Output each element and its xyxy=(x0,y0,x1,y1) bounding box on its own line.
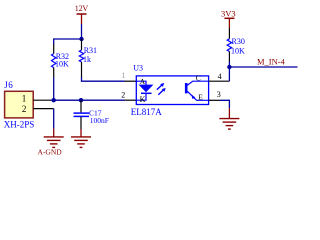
svg-text:10K: 10K xyxy=(55,60,69,69)
power 3V3 xyxy=(221,9,236,29)
svg-text:10K: 10K xyxy=(231,47,245,56)
svg-text:3V3: 3V3 xyxy=(221,9,236,19)
connector J6 xyxy=(4,80,35,130)
svg-text:3: 3 xyxy=(217,90,221,99)
power +12V xyxy=(75,4,89,24)
pin 3 of U3 xyxy=(209,99,220,101)
svg-text:1k: 1k xyxy=(83,55,91,64)
svg-text:1: 1 xyxy=(22,93,27,103)
svg-text:J6: J6 xyxy=(4,80,13,90)
svg-text:2: 2 xyxy=(121,90,125,99)
pin 2 of J6 xyxy=(33,108,54,110)
svg-text:100nF: 100nF xyxy=(90,116,109,125)
wire J6 pin2 down xyxy=(53,109,55,129)
wire R32 to bus xyxy=(53,78,55,101)
svg-text:4: 4 xyxy=(218,72,222,81)
junction bus R32 xyxy=(52,98,56,102)
capacitor C17 xyxy=(74,100,109,129)
svg-text:2: 2 xyxy=(22,104,27,114)
svg-text:R31: R31 xyxy=(84,46,97,55)
ground A-GND left xyxy=(44,129,64,148)
resistor R30 xyxy=(227,28,245,62)
op-amp U3 optocoupler box xyxy=(131,64,209,117)
svg-text:12V: 12V xyxy=(75,4,89,13)
junction bus C17 xyxy=(79,98,83,102)
svg-text:A: A xyxy=(140,77,146,86)
wire R31 to U3 pin1 xyxy=(82,77,125,81)
svg-text:C: C xyxy=(196,74,201,83)
junction 12V node xyxy=(79,37,83,41)
LED inside U3 xyxy=(136,77,153,104)
light arrows inside U3 xyxy=(157,83,166,95)
svg-text:A-GND: A-GND xyxy=(38,148,63,157)
wire M_IN out xyxy=(229,66,297,68)
wire bus pin1 to U3 pin2 xyxy=(51,99,125,101)
wire 12V rail to R32 xyxy=(54,39,82,45)
wire pin3 to ground xyxy=(220,100,229,108)
resistor R31 xyxy=(79,39,97,78)
junction M_IN node xyxy=(227,65,231,69)
ground A-GND under C17 xyxy=(71,129,91,147)
svg-text:U3: U3 xyxy=(133,64,143,73)
pin 4 of U3 xyxy=(209,80,230,82)
svg-text:E: E xyxy=(198,92,203,101)
wire R30 to junction xyxy=(228,62,230,68)
transistor inside U3 xyxy=(186,74,208,102)
pin 1 of J6 xyxy=(33,99,51,101)
svg-text:1: 1 xyxy=(122,71,126,80)
svg-text:EL817A: EL817A xyxy=(131,107,162,117)
svg-text:XH-2PS: XH-2PS xyxy=(4,119,35,129)
svg-text:K: K xyxy=(140,95,146,104)
wire junction down to pin4 xyxy=(228,67,230,81)
wire 12V stem xyxy=(81,24,83,39)
svg-text:R30: R30 xyxy=(232,37,245,46)
ground right xyxy=(219,108,239,129)
pin 2 of U3 xyxy=(125,99,137,101)
pin 1 of U3 xyxy=(125,80,137,82)
resistor R32 xyxy=(52,44,70,78)
svg-text:M_IN-4: M_IN-4 xyxy=(257,57,286,67)
